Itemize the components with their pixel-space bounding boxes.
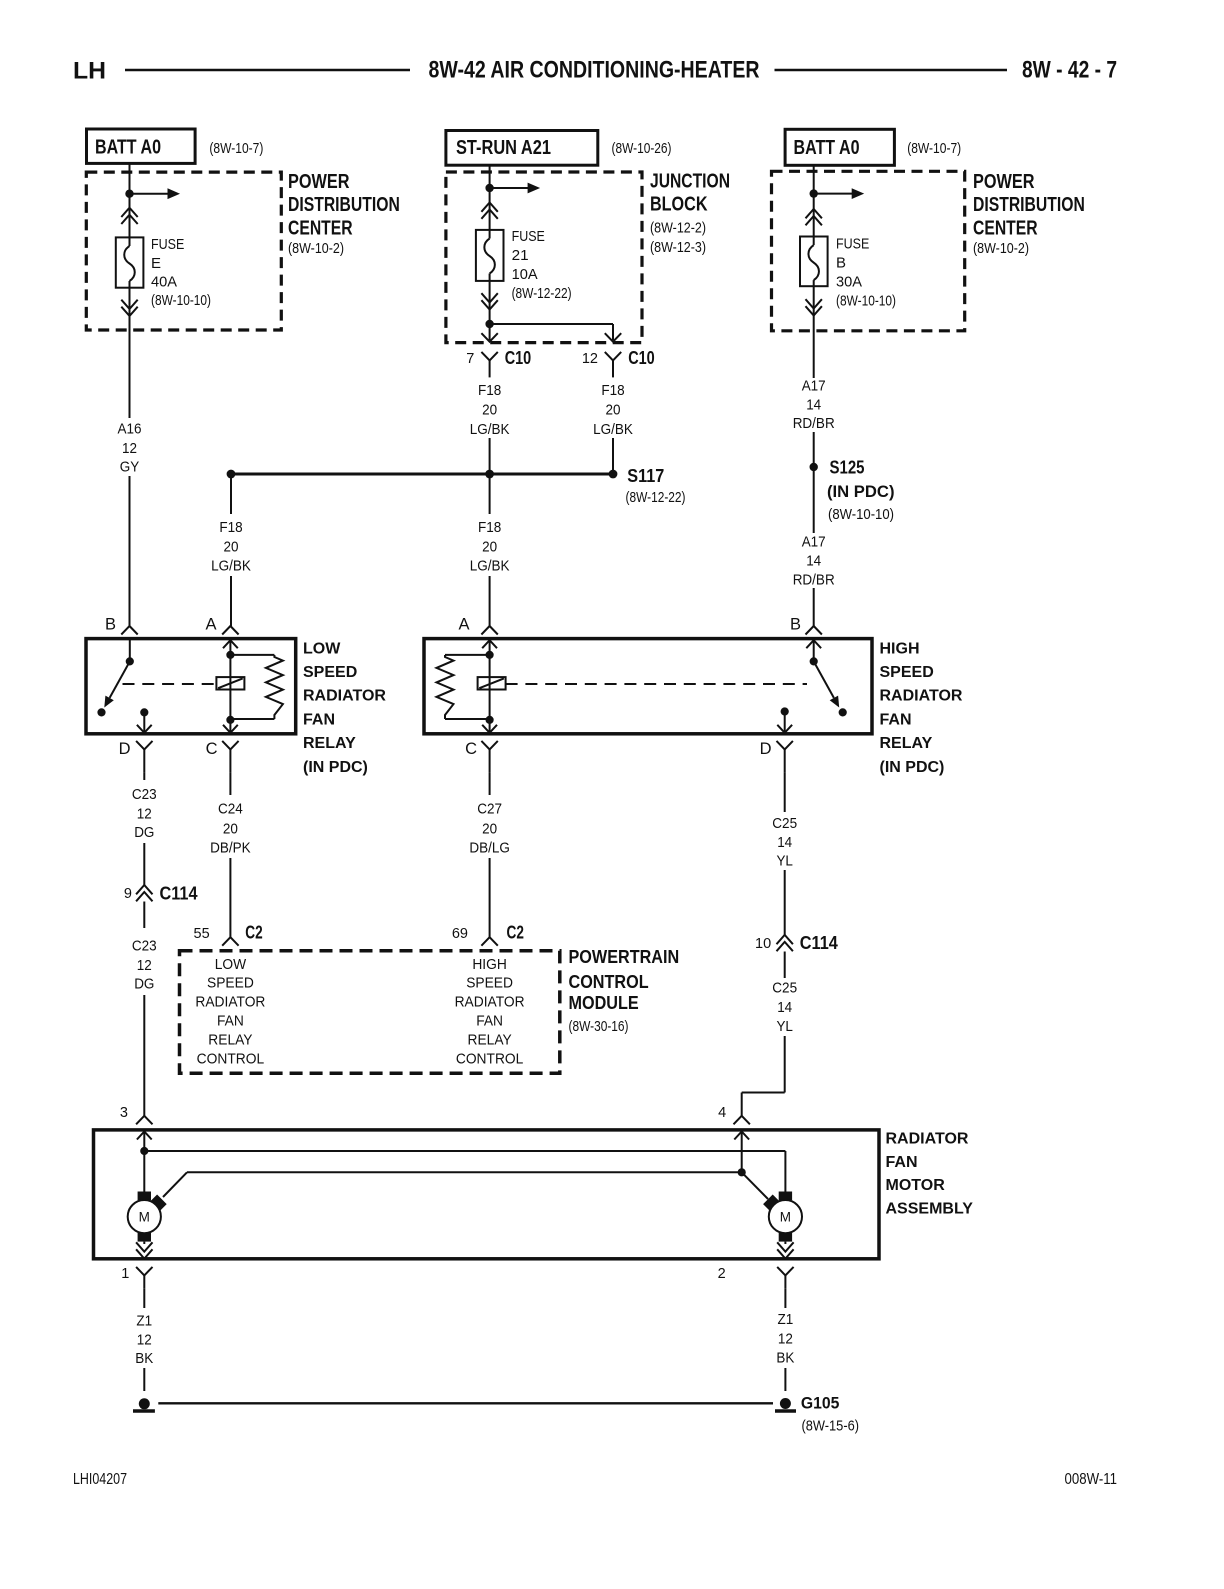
svg-text:A: A xyxy=(205,615,216,633)
svg-text:DISTRIBUTION: DISTRIBUTION xyxy=(288,194,400,216)
svg-text:RELAY: RELAY xyxy=(880,735,933,752)
svg-text:14: 14 xyxy=(777,999,792,1016)
svg-text:RD/BR: RD/BR xyxy=(793,415,835,432)
svg-text:(8W-10-7): (8W-10-7) xyxy=(907,140,961,157)
svg-text:C10: C10 xyxy=(505,348,532,368)
svg-text:2: 2 xyxy=(718,1266,726,1282)
svg-text:(8W-10-7): (8W-10-7) xyxy=(209,140,263,157)
svg-text:(8W-12-22): (8W-12-22) xyxy=(512,285,572,302)
svg-text:SPEED: SPEED xyxy=(207,974,254,991)
svg-text:C24: C24 xyxy=(218,801,243,818)
svg-text:CENTER: CENTER xyxy=(973,218,1038,240)
svg-text:(8W-10-2): (8W-10-2) xyxy=(288,240,344,257)
svg-text:S117: S117 xyxy=(627,466,664,486)
svg-text:SPEED: SPEED xyxy=(303,664,357,681)
svg-text:Z1: Z1 xyxy=(778,1311,794,1328)
svg-text:GY: GY xyxy=(120,458,140,475)
svg-text:20: 20 xyxy=(482,401,497,418)
svg-text:(8W-30-16): (8W-30-16) xyxy=(569,1018,629,1035)
svg-text:10A: 10A xyxy=(512,266,538,283)
svg-text:FAN: FAN xyxy=(880,711,912,728)
svg-text:YL: YL xyxy=(776,1018,793,1035)
svg-text:SPEED: SPEED xyxy=(466,974,513,991)
svg-text:FAN: FAN xyxy=(476,1012,503,1029)
svg-text:LG/BK: LG/BK xyxy=(593,421,633,438)
svg-text:A17: A17 xyxy=(802,533,826,550)
svg-text:C23: C23 xyxy=(132,786,157,803)
svg-text:20: 20 xyxy=(223,820,238,837)
svg-text:008W-11: 008W-11 xyxy=(1065,1471,1118,1488)
svg-text:RD/BR: RD/BR xyxy=(793,571,835,588)
svg-text:RADIATOR: RADIATOR xyxy=(195,993,265,1010)
svg-text:DG: DG xyxy=(134,975,154,992)
svg-text:F18: F18 xyxy=(219,519,242,536)
svg-text:HIGH: HIGH xyxy=(472,956,507,973)
svg-text:9: 9 xyxy=(124,886,132,902)
svg-text:C: C xyxy=(206,740,218,758)
svg-text:RADIATOR: RADIATOR xyxy=(303,688,386,705)
svg-text:CONTROL: CONTROL xyxy=(197,1050,265,1067)
svg-text:D: D xyxy=(760,740,772,758)
svg-text:DB/LG: DB/LG xyxy=(469,839,510,856)
svg-text:FAN: FAN xyxy=(303,711,335,728)
svg-text:MOTOR: MOTOR xyxy=(886,1177,946,1194)
svg-text:F18: F18 xyxy=(478,519,501,536)
svg-text:C: C xyxy=(465,740,477,758)
svg-text:(8W-10-10): (8W-10-10) xyxy=(151,292,211,309)
svg-text:B: B xyxy=(105,615,116,633)
svg-text:LG/BK: LG/BK xyxy=(211,558,251,575)
svg-text:BATT A0: BATT A0 xyxy=(95,137,161,159)
svg-text:12: 12 xyxy=(122,440,137,457)
svg-text:RELAY: RELAY xyxy=(468,1031,512,1048)
svg-text:RELAY: RELAY xyxy=(208,1031,252,1048)
svg-text:FUSE: FUSE xyxy=(836,235,869,252)
svg-text:10: 10 xyxy=(755,936,771,952)
svg-text:C114: C114 xyxy=(160,883,199,904)
svg-text:BATT A0: BATT A0 xyxy=(794,137,860,159)
svg-text:S125: S125 xyxy=(830,458,865,478)
svg-text:C27: C27 xyxy=(477,801,502,818)
svg-text:8W-42 AIR CONDITIONING-HEATER: 8W-42 AIR CONDITIONING-HEATER xyxy=(429,57,760,84)
svg-text:A: A xyxy=(458,615,469,633)
svg-text:B: B xyxy=(790,615,801,633)
svg-text:HIGH: HIGH xyxy=(880,640,920,657)
svg-text:F18: F18 xyxy=(478,382,501,399)
svg-text:C2: C2 xyxy=(507,923,524,943)
svg-text:(8W-10-10): (8W-10-10) xyxy=(828,506,894,523)
svg-text:C23: C23 xyxy=(132,938,157,955)
svg-text:40A: 40A xyxy=(151,273,177,290)
svg-text:FUSE: FUSE xyxy=(151,236,184,253)
svg-text:12: 12 xyxy=(778,1330,793,1347)
svg-text:55: 55 xyxy=(194,926,210,942)
svg-text:DG: DG xyxy=(134,824,154,841)
svg-text:14: 14 xyxy=(806,396,821,413)
svg-text:D: D xyxy=(119,740,131,758)
svg-text:20: 20 xyxy=(224,538,239,555)
svg-text:(8W-10-10): (8W-10-10) xyxy=(836,292,896,309)
svg-text:8W - 42 - 7: 8W - 42 - 7 xyxy=(1022,57,1117,84)
svg-text:(IN PDC): (IN PDC) xyxy=(303,759,368,776)
svg-text:30A: 30A xyxy=(836,273,862,290)
svg-text:(8W-12-3): (8W-12-3) xyxy=(650,239,706,256)
svg-text:FUSE: FUSE xyxy=(512,228,545,245)
svg-text:POWERTRAIN: POWERTRAIN xyxy=(569,947,680,967)
svg-text:12: 12 xyxy=(137,1331,152,1348)
svg-text:B: B xyxy=(836,254,846,271)
svg-text:F18: F18 xyxy=(601,382,624,399)
svg-text:SPEED: SPEED xyxy=(880,664,934,681)
svg-text:LOW: LOW xyxy=(215,956,247,973)
svg-text:3: 3 xyxy=(120,1105,128,1121)
svg-text:7: 7 xyxy=(466,351,474,367)
svg-text:LHI04207: LHI04207 xyxy=(73,1471,127,1488)
svg-text:69: 69 xyxy=(452,926,468,942)
svg-text:21: 21 xyxy=(512,247,529,264)
svg-text:(IN PDC): (IN PDC) xyxy=(880,759,945,776)
svg-text:4: 4 xyxy=(718,1105,726,1121)
svg-text:E: E xyxy=(151,255,161,272)
svg-text:BK: BK xyxy=(135,1350,153,1367)
svg-text:M: M xyxy=(139,1210,150,1225)
svg-text:BK: BK xyxy=(776,1349,794,1366)
svg-text:12: 12 xyxy=(137,957,152,974)
svg-text:LG/BK: LG/BK xyxy=(470,421,510,438)
svg-text:RELAY: RELAY xyxy=(303,735,356,752)
svg-text:ASSEMBLY: ASSEMBLY xyxy=(886,1200,974,1217)
svg-text:14: 14 xyxy=(806,552,821,569)
svg-text:RADIATOR: RADIATOR xyxy=(886,1130,969,1147)
svg-text:CONTROL: CONTROL xyxy=(569,972,649,992)
svg-text:C10: C10 xyxy=(628,348,655,368)
svg-text:(8W-15-6): (8W-15-6) xyxy=(802,1417,860,1434)
svg-text:ST-RUN A21: ST-RUN A21 xyxy=(456,137,551,159)
svg-text:FAN: FAN xyxy=(886,1154,918,1171)
svg-text:LG/BK: LG/BK xyxy=(470,558,510,575)
svg-text:C114: C114 xyxy=(800,932,839,953)
svg-text:12: 12 xyxy=(137,805,152,822)
svg-text:POWER: POWER xyxy=(973,171,1035,193)
svg-text:CENTER: CENTER xyxy=(288,218,353,240)
svg-text:20: 20 xyxy=(482,538,497,555)
svg-text:(8W-10-26): (8W-10-26) xyxy=(612,140,672,157)
svg-text:(8W-12-2): (8W-12-2) xyxy=(650,219,706,236)
svg-text:1: 1 xyxy=(121,1266,129,1282)
svg-text:LH: LH xyxy=(73,58,106,85)
svg-text:C2: C2 xyxy=(245,923,262,943)
svg-text:DISTRIBUTION: DISTRIBUTION xyxy=(973,194,1085,216)
svg-text:M: M xyxy=(780,1210,791,1225)
svg-text:(8W-10-2): (8W-10-2) xyxy=(973,240,1029,257)
svg-text:14: 14 xyxy=(777,834,792,851)
svg-text:A17: A17 xyxy=(802,377,826,394)
svg-text:G105: G105 xyxy=(801,1393,840,1412)
svg-text:DB/PK: DB/PK xyxy=(210,839,251,856)
svg-text:POWER: POWER xyxy=(288,171,350,193)
svg-text:(8W-12-22): (8W-12-22) xyxy=(626,489,686,506)
svg-text:YL: YL xyxy=(776,852,793,869)
svg-text:(IN PDC): (IN PDC) xyxy=(827,482,895,501)
svg-text:BLOCK: BLOCK xyxy=(650,194,708,216)
svg-text:RADIATOR: RADIATOR xyxy=(455,993,525,1010)
svg-text:20: 20 xyxy=(606,401,621,418)
svg-text:12: 12 xyxy=(582,351,598,367)
svg-text:Z1: Z1 xyxy=(136,1312,152,1329)
svg-text:C25: C25 xyxy=(772,979,797,996)
svg-text:MODULE: MODULE xyxy=(569,993,639,1013)
svg-text:RADIATOR: RADIATOR xyxy=(880,688,963,705)
svg-text:20: 20 xyxy=(482,820,497,837)
svg-text:CONTROL: CONTROL xyxy=(456,1050,524,1067)
svg-text:LOW: LOW xyxy=(303,640,341,657)
svg-text:A16: A16 xyxy=(118,420,142,437)
svg-text:JUNCTION: JUNCTION xyxy=(650,171,730,193)
svg-text:C25: C25 xyxy=(772,815,797,832)
svg-text:FAN: FAN xyxy=(217,1012,244,1029)
